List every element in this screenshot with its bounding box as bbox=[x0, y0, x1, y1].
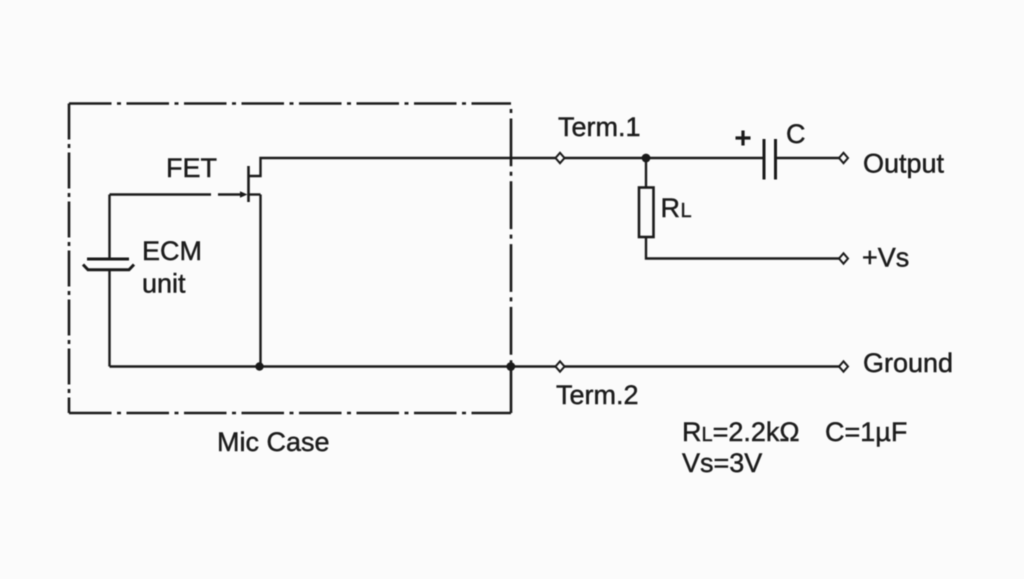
svg-text:+Vs: +Vs bbox=[862, 243, 909, 273]
svg-text:Mic Case: Mic Case bbox=[217, 427, 330, 457]
svg-text:L: L bbox=[681, 200, 692, 222]
svg-text:C: C bbox=[786, 119, 806, 149]
svg-text:Vs=3V: Vs=3V bbox=[682, 448, 762, 478]
svg-text:R: R bbox=[661, 193, 681, 223]
svg-text:RL=2.2kΩ: RL=2.2kΩ bbox=[682, 417, 800, 447]
svg-text:Term.1: Term.1 bbox=[558, 112, 641, 142]
svg-text:Term.2: Term.2 bbox=[556, 380, 639, 410]
svg-text:FET: FET bbox=[166, 153, 217, 183]
svg-text:Output: Output bbox=[863, 149, 945, 179]
svg-text:unit: unit bbox=[142, 269, 186, 299]
svg-text:ECM: ECM bbox=[142, 236, 202, 266]
svg-text:C=1µF: C=1µF bbox=[825, 417, 907, 447]
svg-text:Ground: Ground bbox=[863, 348, 953, 378]
